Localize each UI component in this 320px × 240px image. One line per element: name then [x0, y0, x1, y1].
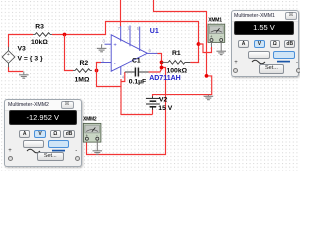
op-amp U1 — [101, 26, 158, 76]
svg-text:R1: R1 — [172, 50, 181, 57]
svg-text:10kΩ: 10kΩ — [31, 39, 48, 46]
wire: V3 bottom lead to ground stem — [9, 67, 24, 72]
source V3 (ABM diamond) — [2, 47, 15, 67]
multimeter window XMM2 — [4, 99, 82, 167]
ground (XMM1 -) — [216, 51, 226, 54]
wire: junction to XMM1 plus terminal — [199, 44, 212, 53]
wire: XMM1 - terminal stub grey — [220, 42, 222, 51]
svg-text:V = { 3 }: V = { 3 } — [18, 56, 43, 63]
wire: XMM1 + terminal stub — [211, 42, 213, 47]
wire: R2 node up to inverting input — [97, 63, 102, 71]
wire: branch to V2 top — [152, 110, 154, 115]
ground (supply drop near XMM1) — [204, 95, 214, 100]
battery V2 — [146, 96, 160, 110]
svg-text:XMM2: XMM2 — [83, 116, 97, 122]
wire: XMM2 - terminal stub grey — [96, 140, 98, 150]
svg-text:100kΩ: 100kΩ — [167, 68, 188, 75]
resistor R2 — [73, 69, 92, 73]
node: junction on supply drop — [205, 74, 209, 78]
wire: op-amp V+ pin 7 from top edge — [120, 0, 122, 27]
wire: R3 right to corner, up, top rail to right vertical — [52, 22, 199, 63]
node: R1 right rail junction — [197, 42, 201, 46]
wire: R2 node down, right, V- pin down, right to V2 bottom — [97, 71, 153, 115]
svg-text:AD711AH: AD711AH — [149, 75, 181, 82]
wire: op-amp V- pin 4 red segment — [121, 72, 125, 87]
resistor R3 — [33, 33, 52, 37]
wire: C1 right lead red to output vertical — [149, 69, 162, 72]
wire: top supply rail from top edge to XMM1 side, down to ground jog — [153, 0, 212, 96]
svg-text:1MΩ: 1MΩ — [75, 77, 90, 84]
svg-text:C1: C1 — [132, 58, 141, 65]
svg-text:-: - — [114, 61, 116, 67]
wire: junction down to R2 left — [65, 35, 74, 71]
svg-text:R2: R2 — [80, 60, 89, 67]
resistor R1 — [162, 61, 191, 65]
capacitor C1 — [125, 68, 149, 77]
multimeter window XMM1 — [231, 10, 300, 77]
node: output junction at R1 left — [160, 61, 164, 65]
instrument icon XMM2 — [83, 123, 101, 142]
svg-text:XMM1: XMM1 — [208, 17, 222, 23]
node: junction under R3 rail — [63, 33, 67, 37]
svg-text:V2: V2 — [159, 97, 168, 104]
ground (XMM2 -) — [93, 151, 103, 154]
svg-text:V3: V3 — [18, 46, 27, 53]
node: R2 right junction — [95, 69, 99, 73]
svg-text:U1: U1 — [150, 28, 159, 35]
svg-text:15 V: 15 V — [158, 105, 172, 112]
svg-text:R3: R3 — [35, 24, 44, 31]
svg-text:0.1µF: 0.1µF — [129, 78, 147, 85]
wire: V3 top lead up and right to R3 — [9, 35, 34, 48]
ground (V3) — [19, 72, 29, 79]
wire: output node vertical down to bottom rail and to XMM2 — [87, 54, 166, 155]
instrument icon XMM1 — [208, 24, 225, 42]
ground (op-amp + input) — [97, 44, 107, 52]
node: output junction at C1 right — [160, 66, 164, 70]
